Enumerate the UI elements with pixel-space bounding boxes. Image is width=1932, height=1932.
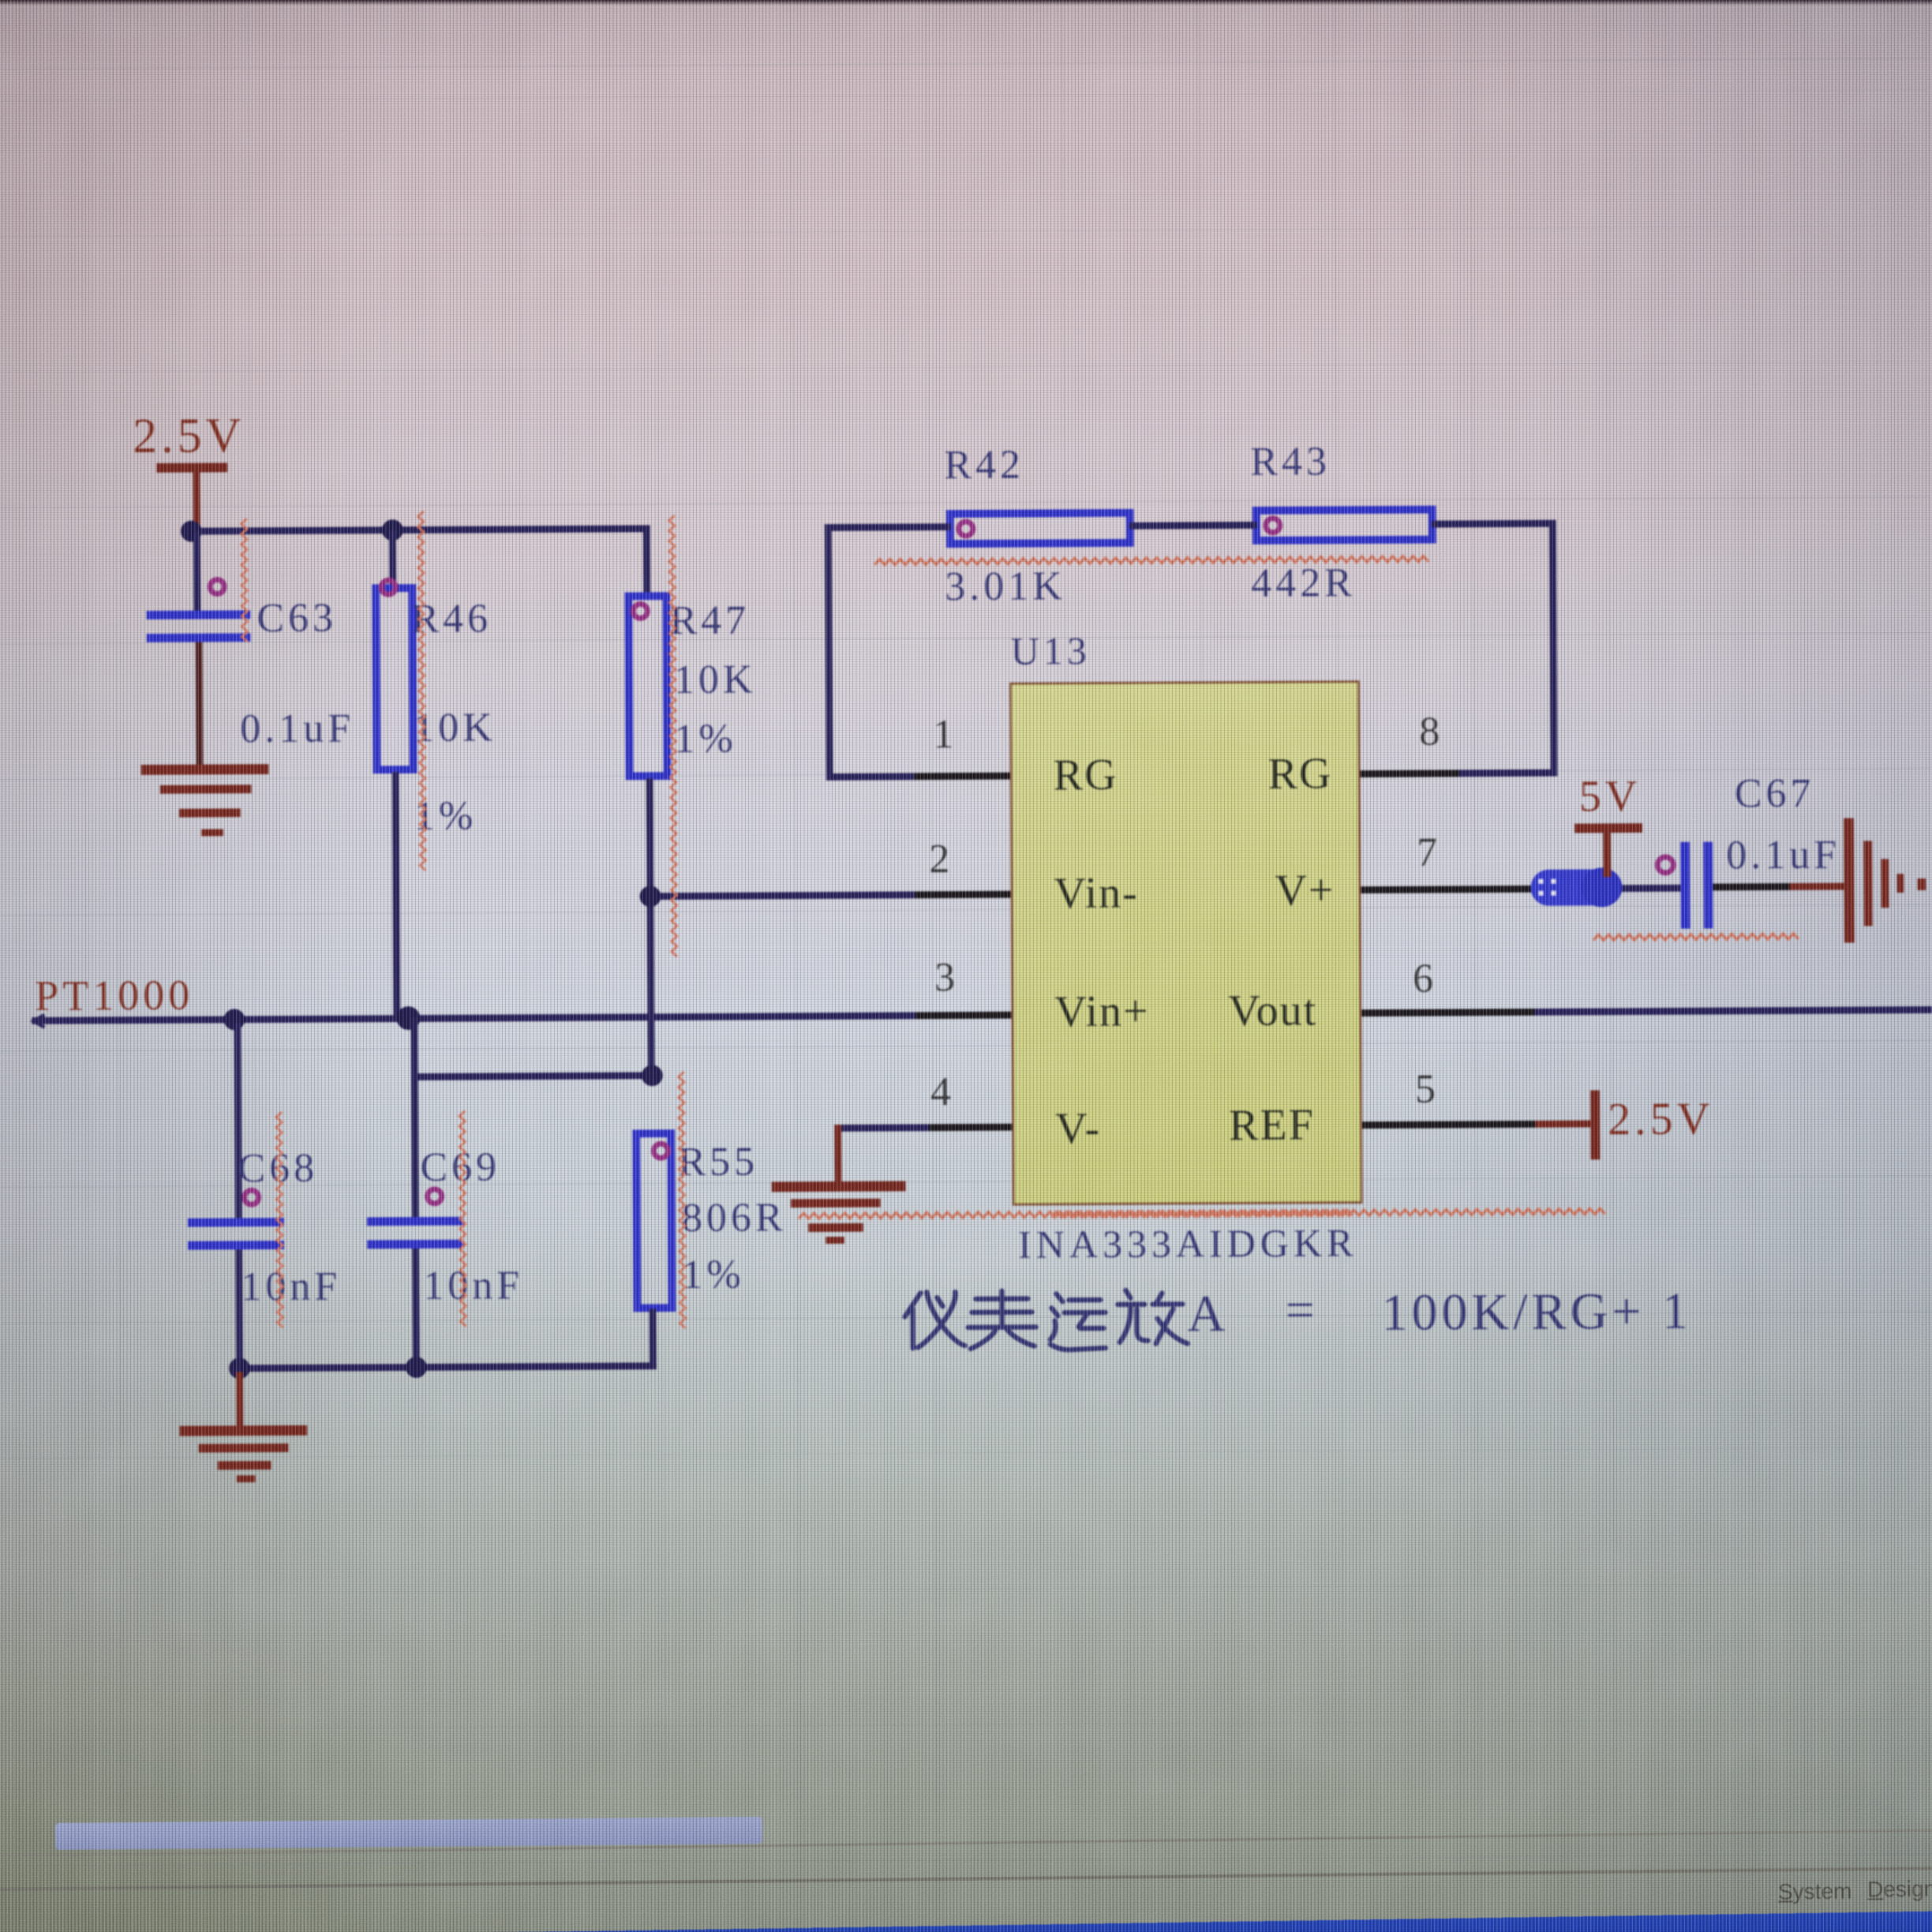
ground (right of C67, sideways) — [1844, 818, 1855, 943]
pin name Vout (pin 6) — [1228, 988, 1317, 1033]
pin number 6 — [1413, 959, 1433, 1000]
resistor R55 — [632, 1129, 676, 1312]
vertical zigzag R55 — [679, 1072, 686, 1328]
zigzag under C67 — [1593, 934, 1799, 940]
wire bottom rail — [236, 1362, 657, 1372]
pin 3 stub — [915, 1012, 1011, 1020]
power symbol 2.5V (REF, pin5) — [1535, 1120, 1595, 1127]
taskbar — [426, 1910, 1932, 1932]
pin name REF (pin 5) — [1229, 1103, 1315, 1148]
pin 6 stub — [1361, 1009, 1534, 1017]
vertical zigzag R46 — [418, 511, 426, 871]
node junction at C68 — [223, 1009, 245, 1030]
vertical zigzag R47 — [669, 515, 677, 957]
pin number 1 — [933, 714, 953, 755]
designator origin donuts — [210, 516, 1676, 1205]
node junction bottom C68 — [229, 1357, 250, 1379]
scrollbar thumb — [55, 1817, 762, 1850]
vertical zigzag C69 — [459, 1111, 466, 1327]
pin name Vin+ (pin 3) — [1054, 990, 1150, 1035]
wire pin4 to ground — [834, 1124, 929, 1132]
pin 8 stub — [1361, 769, 1459, 777]
wire pin2 (Vin-) — [648, 891, 1010, 900]
capacitor C67 — [1680, 842, 1690, 929]
pin number 2 — [929, 839, 949, 880]
pin name V+ (pin 7) — [1275, 868, 1335, 912]
node junction R47/pin2 — [639, 885, 661, 907]
power symbol 5V — [1579, 774, 1642, 818]
pin name RG (pin 8) — [1267, 751, 1332, 796]
node junction — [642, 1065, 663, 1086]
pin name Vin- (pin 2) — [1054, 871, 1139, 916]
resistor R42 — [946, 509, 1134, 548]
node junction at R46 — [382, 519, 403, 541]
wire pin7 segment — [1619, 885, 1685, 892]
ground (below C63) — [141, 764, 269, 775]
pin number 3 — [934, 957, 955, 998]
pin 4 stub — [921, 1124, 1012, 1132]
node junction at C63 — [181, 521, 202, 542]
status text — [1778, 1878, 1852, 1904]
resistor R46 — [389, 530, 396, 587]
pin number 8 — [1419, 712, 1440, 753]
pin number 5 — [1415, 1069, 1436, 1110]
wire C69 to R47 column — [411, 1072, 653, 1080]
chinese text: yi biao yun fang — [904, 1290, 1187, 1350]
pin name RG (pin 1) — [1053, 753, 1118, 797]
resistor R47 — [643, 525, 651, 596]
vertical zigzag C68 — [276, 1112, 283, 1327]
vertical zigzag C63 — [241, 519, 248, 642]
pin 5 stub — [1362, 1121, 1538, 1129]
ground (pin4) — [772, 1181, 906, 1192]
resistor R43 — [1252, 506, 1436, 545]
pin 7 stub — [1361, 885, 1533, 893]
pin 1 stub — [915, 773, 1010, 781]
IC part number — [1018, 1222, 1358, 1264]
wire 2.5V rail — [193, 525, 650, 534]
node junction bottom C69 — [406, 1357, 427, 1378]
status lines — [0, 1829, 1932, 1857]
IC box U13 INA333AIDGKR — [1009, 680, 1363, 1206]
capacitor C63 — [193, 532, 201, 611]
capacitor C68 — [234, 1023, 241, 1220]
power symbol 2.5V (top left) — [133, 411, 245, 461]
pin name V- (pin 4) — [1055, 1106, 1101, 1151]
wire chevron left end of PT1000 — [33, 1015, 44, 1028]
wire pin6 (Vout) — [1534, 1006, 1932, 1016]
net label PT1000 — [35, 974, 193, 1017]
pin number 4 — [930, 1072, 951, 1113]
zigzag under R42 R43 — [874, 556, 1428, 565]
capacitor C69 — [410, 1018, 418, 1223]
pin 2 stub — [915, 891, 1010, 899]
wire pin1 loop — [825, 523, 951, 531]
formula text A = 100K/RG+ 1 — [1187, 1288, 1229, 1340]
zigzag under IC box — [799, 1210, 1353, 1219]
ground (below bottom rail) — [236, 1372, 243, 1427]
U13 designator — [1011, 631, 1091, 671]
wire PT1000 (pin3) — [32, 1012, 1011, 1024]
pin number 7 — [1417, 833, 1437, 874]
node junction at R46 lower — [396, 1006, 420, 1030]
highlighted wire segment blob on pin 7 — [1530, 869, 1622, 906]
